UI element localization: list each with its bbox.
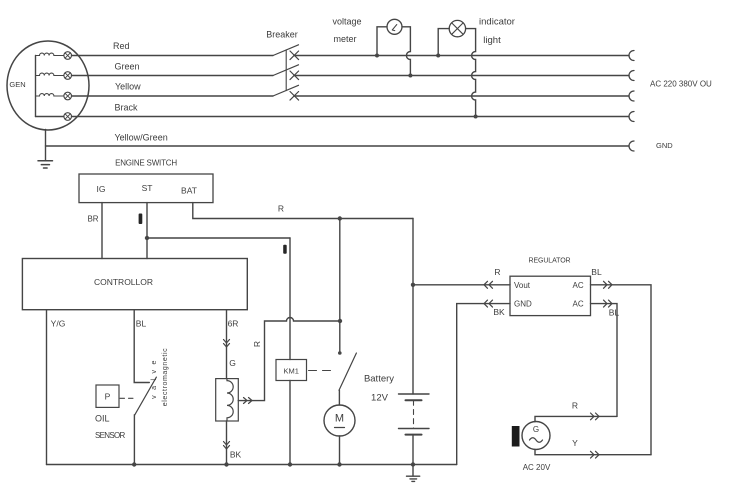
svg-text:GND: GND — [656, 141, 673, 150]
svg-text:ST: ST — [142, 183, 153, 193]
wire 6R from controller — [226, 310, 228, 379]
wire G coil R lead — [535, 416, 617, 421]
neutral wire inside GEN — [36, 116, 64, 118]
relay KM1 box — [276, 360, 307, 381]
connector chevrons AC bottom — [604, 300, 613, 307]
svg-text:BL: BL — [609, 308, 620, 318]
wire Brack line — [72, 116, 630, 118]
terminal T2 — [64, 72, 72, 80]
engine switch S1 box — [79, 174, 213, 203]
wire label W (KM1 wire) — [283, 245, 287, 254]
svg-text:valve: valve — [151, 355, 158, 399]
wire Yellow line — [72, 95, 274, 97]
wire Yellow/Green line — [46, 145, 630, 147]
connector chevrons Y lead — [591, 451, 600, 458]
wire G coil Y lead — [535, 449, 651, 454]
wire GND (BK) — [457, 304, 510, 465]
stator mark (black block) — [512, 426, 520, 447]
terminal T1 — [64, 52, 72, 60]
winding L2 (Green phase) — [36, 73, 64, 75]
winding L3 (Yellow phase) — [36, 94, 64, 96]
svg-text:G: G — [229, 358, 236, 368]
winding bus wire — [35, 56, 37, 117]
svg-text:AC 20V: AC 20V — [523, 463, 551, 472]
svg-text:CONTROLLOR: CONTROLLOR — [94, 277, 153, 287]
svg-text:electromagnetic: electromagnetic — [162, 348, 169, 406]
wire E1 left lead — [438, 29, 449, 56]
starter motor M — [324, 405, 355, 436]
node junction ST — [145, 236, 149, 240]
wire IG to controller (BR) — [101, 203, 103, 259]
svg-text:light: light — [483, 35, 501, 46]
wire V1 right lead (hops Red) — [402, 27, 410, 76]
svg-text:G: G — [533, 425, 539, 434]
wire KM1 coil feed — [289, 238, 291, 360]
connector socket Yellow — [629, 91, 634, 101]
terminal T4 — [64, 113, 72, 121]
svg-text:Breaker: Breaker — [266, 30, 298, 40]
node junction Vout — [411, 283, 415, 287]
connector socket Green — [629, 71, 634, 81]
svg-text:AC: AC — [573, 300, 584, 309]
wire Yellow after breaker — [294, 95, 629, 97]
svg-text:AC: AC — [573, 281, 584, 290]
svg-text:REGULATOR: REGULATOR — [528, 258, 570, 265]
wire BL from controller — [134, 310, 149, 383]
svg-text:R: R — [572, 401, 578, 411]
wire motor to bottom — [339, 436, 341, 465]
wire Red after breaker — [294, 55, 629, 57]
wire Red line — [72, 55, 274, 57]
svg-text:BL: BL — [136, 319, 147, 329]
svg-text:BK: BK — [493, 307, 505, 317]
glow coil winding — [227, 379, 233, 421]
ground (battery) — [407, 476, 420, 481]
svg-text:M: M — [335, 413, 344, 425]
connector chevrons GND — [484, 300, 493, 307]
breaker pole 1 (Red) — [273, 45, 299, 56]
svg-text:6R: 6R — [228, 319, 239, 329]
svg-text:P: P — [105, 392, 111, 402]
svg-text:IG: IG — [97, 184, 106, 194]
svg-text:GEN: GEN — [9, 80, 25, 89]
wire Vout (R) — [413, 284, 510, 286]
wire E1 right lead (hops Red Green Yellow, joins Brack) — [466, 29, 476, 117]
generator GEN circle — [7, 41, 89, 130]
wire Green after breaker — [294, 75, 629, 77]
connector chevrons on 6R — [224, 340, 230, 348]
GEN frame wire to ground — [45, 130, 47, 161]
bottom bus wire — [47, 464, 457, 466]
svg-text:OIL: OIL — [95, 414, 110, 424]
wire AC bottom (BL) — [591, 304, 618, 417]
wire label W (ST wire) — [139, 214, 143, 225]
svg-text:Brack: Brack — [115, 103, 139, 113]
oil sensor B1 box — [96, 385, 119, 407]
connector chevrons BK — [224, 442, 230, 450]
connector chevrons AC top — [604, 281, 613, 288]
wire ST junction to KM1 branch — [147, 237, 290, 239]
connector socket Red — [629, 51, 634, 61]
dashed link KM1 to contactor — [309, 370, 333, 372]
wire Y/G from controller — [46, 310, 48, 465]
svg-text:SENSOR: SENSOR — [95, 431, 126, 440]
wire coil tap to R link (hops KM1 feed) — [238, 318, 340, 401]
contactor blade — [339, 353, 356, 390]
ground (GEN) — [38, 161, 53, 168]
svg-text:R: R — [278, 204, 284, 214]
wire battery to bottom — [412, 435, 414, 476]
svg-text:ENGINE SWITCH: ENGINE SWITCH — [115, 159, 177, 168]
wire V1 left lead — [377, 27, 387, 56]
svg-text:Yellow: Yellow — [115, 82, 141, 92]
svg-text:Y: Y — [572, 438, 578, 448]
wire ST to controller — [146, 203, 148, 259]
controller U1 box — [22, 259, 247, 310]
wire AC top (BL) — [591, 285, 652, 455]
svg-text:12V: 12V — [371, 393, 389, 404]
connector chevrons Vout — [484, 281, 493, 288]
dashed link sensor to switch — [120, 397, 137, 399]
svg-text:Red: Red — [113, 41, 130, 51]
svg-text:AC 220 380V OU: AC 220 380V OU — [650, 80, 712, 89]
node junction R link — [338, 319, 342, 323]
svg-text:indicator: indicator — [479, 17, 515, 28]
svg-text:Battery: Battery — [364, 374, 394, 385]
svg-text:Green: Green — [115, 62, 140, 72]
svg-text:BAT: BAT — [181, 186, 197, 196]
wire battery riser — [412, 219, 414, 395]
wire oil switch to bottom — [133, 415, 135, 465]
svg-text:R: R — [252, 341, 262, 347]
indicator lamp E1 — [449, 20, 465, 36]
charge coil G circle — [522, 422, 550, 450]
svg-text:BL: BL — [591, 267, 602, 277]
svg-text:voltage: voltage — [332, 17, 361, 27]
battery plates — [399, 393, 430, 395]
connector socket Brack — [629, 112, 634, 122]
terminal T3 — [64, 92, 72, 100]
svg-text:KM1: KM1 — [283, 367, 298, 376]
wire Green line — [72, 75, 274, 77]
breaker pole 3 (Yellow) — [273, 85, 299, 96]
svg-text:meter: meter — [333, 34, 356, 44]
wire KM1 to bottom — [289, 381, 291, 465]
connector chevrons R lead — [591, 413, 600, 420]
regulator U2 box — [510, 276, 591, 315]
connector socket Yellow/Green — [629, 141, 634, 151]
glow coil FR1 box — [216, 379, 239, 421]
svg-text:BR: BR — [87, 215, 98, 224]
oil switch blade — [135, 377, 157, 415]
node junction R / starter — [338, 216, 342, 220]
svg-text:Yellow/Green: Yellow/Green — [115, 133, 168, 143]
connector chevrons coil tap — [244, 398, 253, 404]
breaker gang tie-bar — [285, 50, 287, 91]
wire blade to motor — [338, 390, 340, 405]
wire coil to BK bottom — [226, 421, 228, 465]
winding L1 (Red phase) — [36, 53, 64, 55]
svg-text:Y/G: Y/G — [51, 319, 66, 329]
svg-text:R: R — [494, 267, 500, 277]
wire BAT riser — [193, 203, 413, 219]
wire starter feed — [339, 219, 341, 354]
svg-text:BK: BK — [230, 450, 242, 460]
voltage meter V1 — [387, 19, 402, 34]
breaker pole 2 (Green) — [273, 65, 299, 76]
svg-text:GND: GND — [514, 300, 532, 309]
svg-text:Vout: Vout — [514, 281, 531, 290]
